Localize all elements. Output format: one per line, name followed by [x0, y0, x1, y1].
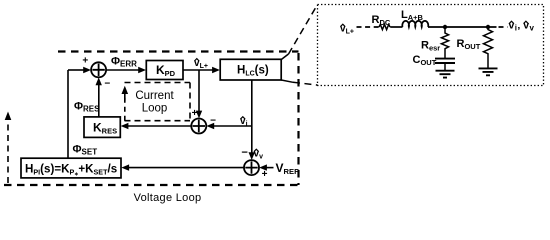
svg-text:ROUT: ROUT	[457, 38, 481, 51]
svg-text:−: −	[104, 78, 110, 89]
svg-text:ΦERR: ΦERR	[111, 56, 137, 69]
svg-text:+: +	[82, 55, 88, 66]
ground (under COUT)	[436, 71, 455, 78]
wire KRES up to S1	[98, 85, 100, 117]
svg-text:+: +	[262, 169, 268, 180]
wire S2 output to KRES	[128, 125, 191, 127]
voltage loop dashed box right edge	[297, 53, 299, 185]
svg-text:Voltage Loop: Voltage Loop	[134, 192, 202, 204]
wire phi_set vertical from HPI up	[67, 70, 69, 158]
svg-text:ΦRES: ΦRES	[74, 101, 100, 114]
block KPD	[146, 61, 183, 80]
wire S1 to KPD	[106, 69, 139, 71]
block HPI	[21, 158, 121, 178]
ground (under ROUT)	[479, 68, 498, 75]
inductor LA+B	[402, 21, 428, 27]
wire v_i from vertical line into S2	[214, 125, 252, 127]
wire S3 output to HPI	[129, 167, 244, 169]
current loop direction arrow	[124, 92, 126, 101]
svg-text:Current: Current	[135, 90, 174, 102]
summing junction S1 (phase error)	[91, 62, 106, 77]
current loop left edge dashed shaft	[124, 97, 126, 121]
svg-text:HLC(s): HLC(s)	[237, 65, 269, 78]
callout wedge bottom line	[281, 80, 293, 82]
block HLC(s)	[220, 59, 281, 80]
wire HLC output down	[251, 80, 253, 154]
svg-text:KRES: KRES	[93, 120, 117, 135]
resistor Resr (vertical)	[441, 27, 448, 59]
svg-text:Resr: Resr	[421, 40, 440, 53]
callout wedge top line	[281, 54, 288, 60]
svg-text:Loop: Loop	[142, 103, 168, 115]
resistor ROUT (vertical)	[484, 27, 493, 68]
wire after inductor to output	[428, 26, 497, 28]
svg-text:COUT: COUT	[413, 54, 437, 67]
wire	[390, 26, 402, 28]
voltage loop direction arrow (dashed shaft)	[7, 119, 9, 183]
summing junction S2 (current loop)	[191, 119, 206, 134]
inset dotted border	[318, 5, 544, 86]
svg-text:HPI(s)=KP∗+KSET/s: HPI(s)=KP∗+KSET/s	[25, 162, 117, 177]
resistor RDC	[379, 24, 390, 29]
svg-text:−: −	[242, 147, 248, 158]
voltage loop dashed box top edge	[58, 50, 299, 52]
current loop dashed box bottom edge	[125, 120, 191, 122]
current loop dashed box top edge	[125, 82, 191, 84]
svg-text:+: +	[192, 108, 198, 119]
current loop dashed box right edge	[189, 83, 191, 121]
svg-text:ΦSET: ΦSET	[73, 144, 98, 157]
wire KPD to HLC	[183, 69, 213, 71]
dashed input wire	[357, 26, 380, 28]
dashed output wire	[499, 26, 508, 28]
svg-text:LA+B: LA+B	[401, 9, 424, 22]
svg-text:VREF: VREF	[276, 161, 300, 176]
voltage loop dashed box bottom edge	[4, 184, 299, 186]
svg-text:RDC: RDC	[372, 14, 391, 27]
svg-text:KPD: KPD	[156, 63, 176, 78]
node at Resr branch	[443, 25, 447, 29]
node at Rout branch	[486, 25, 490, 29]
wire VREF into S3	[267, 167, 274, 169]
wire branch vL+ down to S2	[198, 70, 200, 112]
voltage loop direction arrowhead	[5, 112, 12, 121]
capacitor COUT	[435, 59, 455, 63]
wire into S1 from left	[68, 69, 84, 71]
block KRES	[84, 117, 120, 137]
summing junction S3 (voltage loop)	[244, 160, 259, 175]
